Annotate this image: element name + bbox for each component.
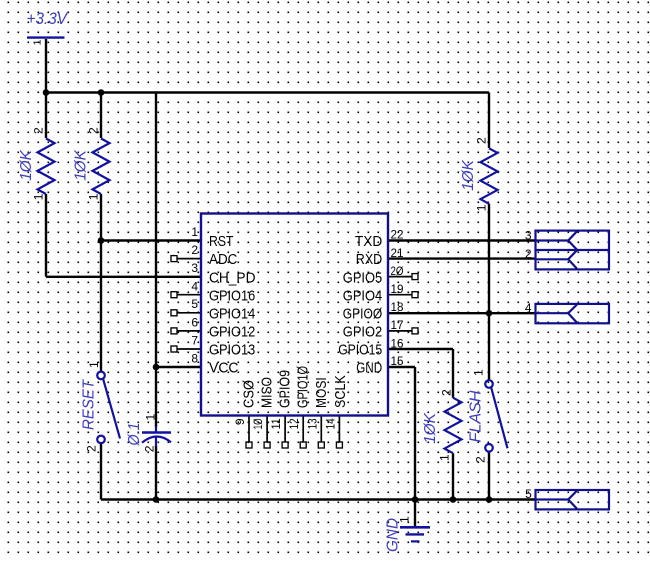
svg-text:1ØK: 1ØK [422, 412, 439, 444]
svg-text:13: 13 [305, 418, 319, 429]
svg-text:2: 2 [191, 243, 198, 257]
svg-text:3: 3 [525, 228, 532, 242]
svg-text:GPIO5: GPIO5 [343, 269, 382, 286]
svg-text:GPIO15: GPIO15 [338, 342, 382, 359]
svg-text:GPIO1Ø: GPIO1Ø [295, 366, 312, 408]
svg-text:4: 4 [525, 301, 532, 315]
svg-text:GPIOØ: GPIOØ [343, 305, 383, 322]
svg-text:14: 14 [323, 418, 337, 429]
svg-text:VCC: VCC [209, 360, 239, 377]
svg-text:MISO: MISO [259, 377, 276, 408]
svg-text:1: 1 [191, 225, 198, 239]
svg-text:2: 2 [525, 247, 532, 261]
svg-text:1: 1 [87, 193, 101, 200]
svg-text:8: 8 [191, 351, 198, 365]
svg-text:22: 22 [391, 228, 404, 242]
svg-text:4: 4 [191, 279, 198, 293]
svg-text:GND: GND [356, 360, 382, 377]
svg-text:12: 12 [287, 418, 301, 429]
svg-text:18: 18 [391, 300, 404, 314]
svg-text:1: 1 [87, 361, 101, 368]
svg-text:1: 1 [144, 414, 158, 421]
svg-text:15: 15 [391, 354, 404, 368]
svg-text:2: 2 [440, 389, 454, 396]
svg-text:Ø.1: Ø.1 [126, 423, 143, 447]
svg-text:GND: GND [385, 518, 402, 552]
svg-text:1: 1 [475, 204, 489, 211]
svg-text:1ØK: 1ØK [73, 149, 90, 181]
svg-text:SCLK: SCLK [332, 375, 349, 408]
svg-text:+3.3V: +3.3V [27, 9, 69, 28]
svg-text:21: 21 [391, 246, 404, 260]
svg-text:2: 2 [85, 445, 99, 452]
svg-text:RST: RST [209, 233, 234, 250]
svg-text:CH_PD: CH_PD [209, 269, 256, 286]
svg-text:GPIO2: GPIO2 [343, 324, 382, 341]
svg-text:17: 17 [391, 318, 404, 332]
svg-text:1Ø: 1Ø [251, 418, 265, 429]
svg-text:GPIO16: GPIO16 [209, 288, 255, 305]
svg-text:7: 7 [191, 334, 198, 348]
svg-text:GPIO9: GPIO9 [277, 370, 294, 408]
svg-text:6: 6 [191, 315, 198, 329]
svg-text:5: 5 [191, 297, 198, 311]
svg-text:2: 2 [143, 445, 157, 452]
svg-text:5: 5 [525, 487, 532, 501]
svg-text:2: 2 [32, 127, 46, 134]
svg-text:GPIO4: GPIO4 [343, 288, 382, 305]
svg-text:GPIO14: GPIO14 [209, 305, 255, 322]
svg-text:9: 9 [233, 418, 247, 425]
svg-text:1: 1 [472, 369, 486, 376]
svg-text:2: 2 [87, 127, 101, 134]
svg-text:CSØ: CSØ [241, 380, 258, 408]
svg-text:11: 11 [269, 418, 283, 429]
svg-text:2: 2 [474, 456, 488, 463]
svg-text:16: 16 [391, 336, 404, 350]
svg-text:FLASH: FLASH [468, 390, 485, 442]
svg-text:GPIO13: GPIO13 [209, 342, 255, 359]
svg-text:RXD: RXD [356, 251, 383, 268]
svg-text:2Ø: 2Ø [391, 264, 404, 278]
svg-text:1: 1 [32, 39, 44, 45]
svg-text:RESET: RESET [81, 379, 98, 430]
svg-text:2: 2 [475, 137, 489, 144]
svg-text:19: 19 [391, 282, 404, 296]
svg-text:1: 1 [438, 454, 452, 461]
svg-text:TXD: TXD [355, 233, 382, 250]
svg-text:3: 3 [191, 261, 198, 275]
svg-text:MOSI: MOSI [313, 377, 330, 408]
svg-text:1ØK: 1ØK [460, 159, 477, 191]
svg-text:GPIO12: GPIO12 [209, 324, 255, 341]
svg-text:ADC: ADC [209, 251, 237, 268]
svg-text:1: 1 [32, 193, 46, 200]
svg-text:1ØK: 1ØK [18, 149, 35, 181]
